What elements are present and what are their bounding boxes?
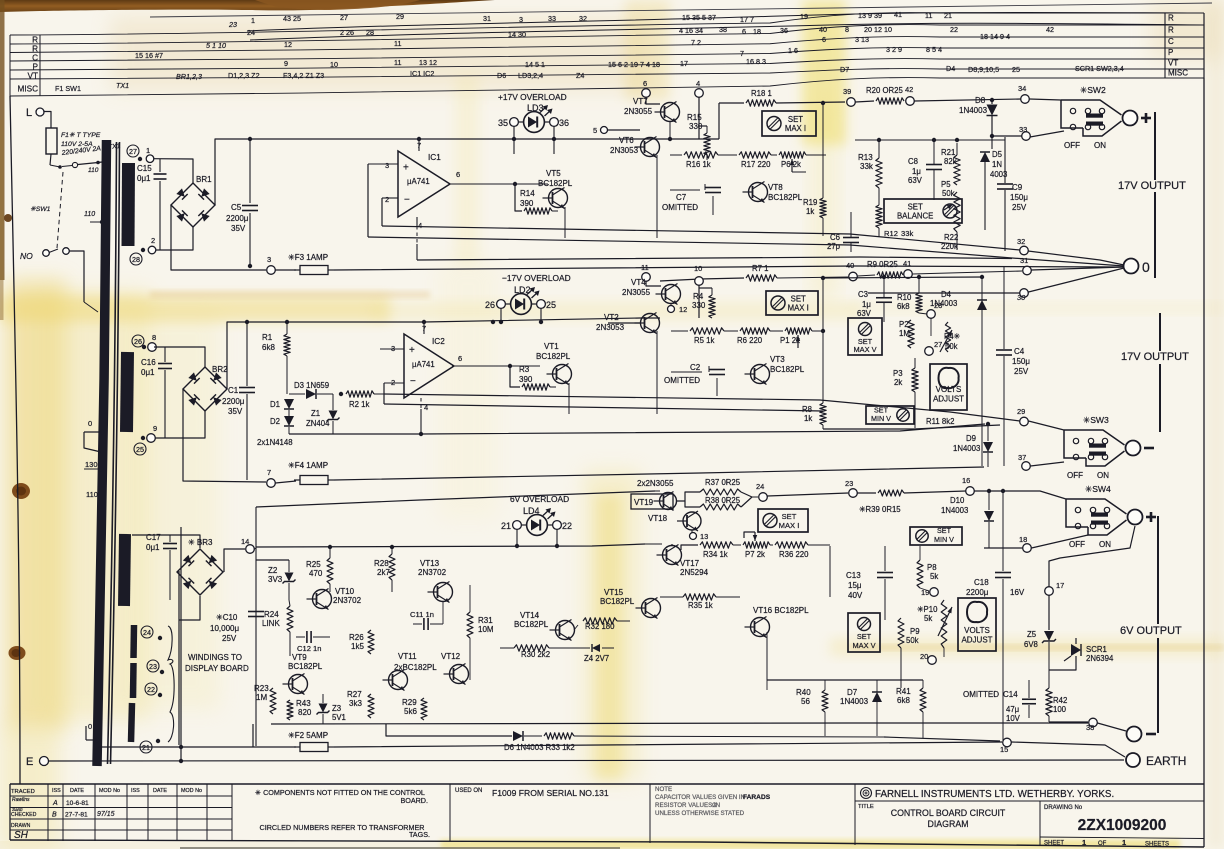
svg-text:LINK: LINK — [262, 619, 280, 628]
svg-text:VT5: VT5 — [546, 169, 561, 178]
svg-text:VT9: VT9 — [292, 653, 307, 662]
svg-text:VT18: VT18 — [648, 514, 668, 523]
svg-text:R10: R10 — [897, 293, 912, 302]
svg-text:1k: 1k — [804, 414, 812, 423]
svg-text:19: 19 — [800, 12, 808, 21]
svg-text:C11 1n: C11 1n — [410, 610, 434, 619]
svg-text:OFF: OFF — [1067, 471, 1083, 480]
svg-text:23: 23 — [149, 662, 157, 671]
svg-text:D6 1N4003 R33 1k2: D6 1N4003 R33 1k2 — [504, 743, 575, 752]
svg-text:14 5 1: 14 5 1 — [525, 60, 545, 69]
svg-text:56: 56 — [801, 697, 810, 706]
svg-text:R29: R29 — [402, 698, 417, 707]
svg-text:SET: SET — [908, 203, 923, 212]
svg-text:ON: ON — [1097, 471, 1109, 480]
svg-text:VT13: VT13 — [420, 559, 440, 568]
svg-text:R42: R42 — [1053, 696, 1067, 705]
svg-text:SCR1 SW2,3,4: SCR1 SW2,3,4 — [1075, 64, 1124, 73]
svg-text:33: 33 — [548, 14, 556, 23]
svg-text:5 1 10: 5 1 10 — [206, 41, 226, 50]
svg-text:4: 4 — [418, 221, 422, 230]
svg-text:VT17: VT17 — [680, 559, 700, 568]
svg-text:VT10: VT10 — [335, 587, 355, 596]
svg-text:VT11: VT11 — [398, 652, 417, 661]
svg-text:R38 0R25: R38 0R25 — [705, 496, 741, 505]
svg-text:−: − — [404, 194, 410, 205]
svg-text:MIN V: MIN V — [871, 414, 891, 423]
svg-text:25V: 25V — [1012, 203, 1027, 212]
svg-text:✳F3 1AMP: ✳F3 1AMP — [288, 253, 328, 262]
svg-text:24: 24 — [143, 628, 151, 637]
svg-text:27-7-81: 27-7-81 — [65, 812, 88, 819]
svg-text:R20 OR25: R20 OR25 — [866, 86, 904, 95]
svg-text:R1: R1 — [262, 333, 273, 342]
svg-text:C13: C13 — [846, 571, 861, 580]
svg-text:0: 0 — [88, 419, 92, 428]
svg-text:OMITTED: OMITTED — [664, 376, 700, 385]
svg-text:2N3053: 2N3053 — [596, 323, 625, 332]
svg-text:P: P — [1168, 48, 1173, 57]
svg-text:1N4003: 1N4003 — [930, 299, 957, 308]
svg-text:6: 6 — [822, 35, 826, 44]
svg-text:41: 41 — [894, 10, 902, 19]
svg-text:4: 4 — [696, 79, 700, 88]
svg-text:TITLE: TITLE — [858, 804, 874, 810]
svg-text:3: 3 — [267, 255, 271, 264]
svg-text:25: 25 — [1012, 65, 1020, 74]
svg-text:1N4003: 1N4003 — [941, 506, 968, 515]
svg-text:R36 220: R36 220 — [779, 550, 809, 559]
svg-text:10M: 10M — [478, 625, 494, 634]
svg-text:2: 2 — [385, 195, 389, 204]
svg-text:2N3702: 2N3702 — [418, 568, 447, 577]
svg-text:22: 22 — [950, 25, 958, 34]
svg-text:✳SW4: ✳SW4 — [1085, 484, 1111, 494]
svg-text:16V: 16V — [1010, 588, 1025, 597]
svg-text:P3: P3 — [893, 369, 903, 378]
svg-text:3V3: 3V3 — [268, 575, 283, 584]
svg-text:1μ: 1μ — [862, 300, 871, 309]
svg-text:ISS: ISS — [52, 788, 61, 794]
svg-text:C4: C4 — [1014, 347, 1025, 356]
svg-text:1M: 1M — [256, 693, 267, 702]
svg-text:R17 220: R17 220 — [741, 160, 771, 169]
svg-text:Rawlins: Rawlins — [12, 797, 30, 803]
svg-text:R5 1k: R5 1k — [694, 336, 714, 345]
svg-text:13 9 39: 13 9 39 — [858, 11, 882, 20]
svg-text:DIAGRAM: DIAGRAM — [927, 819, 968, 829]
svg-text:BC182PL: BC182PL — [770, 365, 805, 374]
svg-text:390: 390 — [520, 199, 534, 208]
svg-text:R3: R3 — [519, 365, 530, 374]
svg-text:11: 11 — [925, 11, 932, 20]
svg-text:D1: D1 — [270, 400, 280, 409]
svg-text:5k6: 5k6 — [404, 707, 417, 716]
svg-text:23: 23 — [845, 479, 853, 488]
svg-text:OFF: OFF — [1069, 540, 1085, 549]
svg-text:110: 110 — [84, 211, 95, 218]
svg-text:C18: C18 — [974, 578, 989, 587]
svg-text:R4: R4 — [693, 292, 704, 301]
svg-text:130: 130 — [85, 460, 98, 469]
svg-text:21: 21 — [501, 521, 511, 531]
svg-text:0: 0 — [1142, 259, 1150, 275]
svg-text:40: 40 — [819, 25, 827, 34]
svg-text:110: 110 — [86, 490, 98, 499]
svg-text:TRACED: TRACED — [11, 789, 35, 795]
svg-text:ZN404: ZN404 — [306, 419, 330, 428]
svg-text:25: 25 — [546, 300, 556, 310]
svg-text:μA741: μA741 — [412, 360, 435, 369]
svg-text:C12 1n: C12 1n — [297, 644, 322, 653]
svg-text:1: 1 — [1082, 838, 1086, 847]
svg-text:SET: SET — [791, 295, 806, 304]
svg-text:✳R39 0R15: ✳R39 0R15 — [859, 505, 901, 514]
svg-text:C: C — [1168, 37, 1174, 46]
svg-text:UNLESS OTHERWISE STATED: UNLESS OTHERWISE STATED — [655, 810, 745, 817]
svg-text:15 16 #7: 15 16 #7 — [135, 51, 163, 60]
svg-text:9: 9 — [284, 59, 288, 68]
svg-text:17: 17 — [680, 59, 688, 68]
svg-text:9: 9 — [153, 424, 157, 433]
svg-text:110: 110 — [88, 167, 99, 174]
svg-text:2N3055: 2N3055 — [622, 288, 651, 297]
svg-text:CHECKED: CHECKED — [11, 812, 37, 818]
svg-text:DRAWN: DRAWN — [11, 823, 31, 829]
svg-text:✳F2 5AMP: ✳F2 5AMP — [288, 731, 328, 740]
svg-text:OFF: OFF — [1064, 141, 1080, 150]
svg-text:VT12: VT12 — [441, 652, 461, 661]
svg-text:ON: ON — [1099, 540, 1111, 549]
svg-text:15: 15 — [1000, 745, 1008, 754]
svg-text:BC182PL: BC182PL — [538, 179, 573, 188]
svg-text:MOD No: MOD No — [99, 788, 120, 794]
svg-text:82k: 82k — [944, 157, 957, 166]
svg-text:470: 470 — [309, 569, 323, 578]
svg-text:41: 41 — [903, 259, 911, 268]
svg-text:15 35 5 37: 15 35 5 37 — [682, 13, 716, 22]
svg-text:VT: VT — [28, 72, 38, 81]
svg-text:1: 1 — [251, 16, 255, 25]
svg-text:40: 40 — [846, 261, 854, 270]
svg-text:Z1: Z1 — [311, 409, 320, 418]
svg-text:R22: R22 — [944, 233, 958, 242]
svg-text:16 8 3: 16 8 3 — [746, 57, 766, 66]
svg-text:4 16 34: 4 16 34 — [679, 26, 703, 35]
svg-text:F1 SW1: F1 SW1 — [55, 84, 81, 93]
svg-text:2k7: 2k7 — [377, 568, 390, 577]
svg-text:2200μ: 2200μ — [226, 214, 249, 223]
svg-text:μA741: μA741 — [407, 177, 430, 186]
svg-text:D8,9,10,5: D8,9,10,5 — [968, 65, 999, 74]
svg-text:Santi: Santi — [12, 807, 23, 812]
svg-text:IC2: IC2 — [432, 337, 445, 346]
svg-text:5k: 5k — [930, 572, 938, 581]
svg-text:1N4003: 1N4003 — [959, 106, 988, 115]
svg-text:SH: SH — [14, 830, 29, 841]
svg-text:E: E — [26, 756, 33, 768]
svg-text:23: 23 — [228, 20, 237, 29]
svg-text:25V: 25V — [222, 634, 237, 643]
svg-text:13 12: 13 12 — [419, 58, 437, 67]
svg-text:10-6-81: 10-6-81 — [66, 800, 89, 807]
svg-text:D10: D10 — [950, 496, 965, 505]
svg-text:SET: SET — [857, 632, 872, 641]
svg-text:2N3055: 2N3055 — [624, 107, 653, 116]
svg-text:5V1: 5V1 — [332, 713, 346, 722]
svg-text:R2 1k: R2 1k — [349, 400, 369, 409]
svg-text:38: 38 — [1086, 723, 1094, 732]
svg-text:R41: R41 — [896, 687, 911, 696]
svg-text:A: A — [52, 800, 58, 807]
svg-text:C17: C17 — [146, 533, 161, 542]
svg-text:R25: R25 — [306, 560, 321, 569]
svg-text:LD3: LD3 — [527, 103, 544, 113]
svg-text:29: 29 — [396, 12, 404, 21]
svg-text:C3: C3 — [858, 290, 868, 299]
svg-text:IC1 IC2: IC1 IC2 — [410, 69, 434, 78]
svg-text:C1: C1 — [228, 386, 239, 395]
svg-text:NOTE: NOTE — [655, 786, 672, 793]
svg-text:R16 1k: R16 1k — [686, 160, 711, 169]
svg-text:24: 24 — [247, 28, 255, 37]
svg-text:36: 36 — [559, 118, 569, 128]
svg-text:33: 33 — [1019, 125, 1027, 134]
svg-text:R18 1: R18 1 — [751, 89, 772, 98]
svg-text:DATE: DATE — [153, 788, 167, 794]
svg-text:R28: R28 — [374, 559, 389, 568]
svg-text:C15: C15 — [137, 164, 152, 173]
svg-text:16: 16 — [962, 476, 970, 485]
svg-text:P: P — [33, 63, 39, 72]
svg-text:P6 2k: P6 2k — [781, 160, 801, 169]
svg-text:7 2: 7 2 — [691, 38, 701, 47]
svg-text:VT3: VT3 — [770, 355, 785, 364]
svg-text:L: L — [26, 107, 32, 119]
svg-text:150μ: 150μ — [1012, 357, 1030, 366]
svg-text:11: 11 — [394, 58, 401, 67]
svg-text:32: 32 — [579, 14, 587, 23]
svg-text:63V: 63V — [857, 309, 872, 318]
svg-text:D3 1N659: D3 1N659 — [294, 381, 329, 390]
svg-text:R23: R23 — [254, 684, 269, 693]
svg-text:MAX V: MAX V — [854, 345, 877, 354]
svg-text:R40: R40 — [796, 688, 811, 697]
svg-text:28: 28 — [132, 255, 140, 264]
svg-text:6: 6 — [458, 354, 462, 363]
svg-text:33k: 33k — [860, 162, 874, 171]
svg-text:50k: 50k — [942, 189, 955, 198]
svg-text:BC182PL: BC182PL — [768, 193, 803, 202]
svg-text:RESISTOR VALUES IN: RESISTOR VALUES IN — [655, 802, 720, 809]
svg-text:3 2 9: 3 2 9 — [886, 45, 902, 54]
svg-text:BC182PL: BC182PL — [600, 597, 635, 606]
svg-text:2N6394: 2N6394 — [1086, 654, 1114, 663]
svg-text:25V: 25V — [1014, 367, 1029, 376]
svg-text:BC182PL: BC182PL — [514, 620, 549, 629]
svg-text:21: 21 — [944, 11, 952, 20]
svg-text:2k: 2k — [894, 378, 902, 387]
svg-text:7: 7 — [740, 49, 744, 58]
svg-text:33k: 33k — [901, 229, 913, 238]
svg-text:0μ1: 0μ1 — [146, 543, 160, 552]
svg-text:✳P10: ✳P10 — [917, 605, 938, 614]
svg-text:TAGS.: TAGS. — [409, 830, 430, 839]
svg-text:R35 1k: R35 1k — [688, 601, 713, 610]
svg-text:2N5294: 2N5294 — [680, 568, 709, 577]
svg-text:35: 35 — [498, 118, 508, 128]
svg-text:8: 8 — [152, 333, 156, 342]
svg-text:22: 22 — [562, 521, 572, 531]
svg-text:R37 0R25: R37 0R25 — [705, 478, 741, 487]
svg-text:330: 330 — [692, 301, 706, 310]
svg-text:1N4003: 1N4003 — [840, 697, 869, 706]
svg-text:D1,2,3 Z2: D1,2,3 Z2 — [228, 71, 260, 80]
svg-text:3: 3 — [385, 161, 389, 170]
svg-text:27: 27 — [340, 13, 348, 22]
svg-text:MAX V: MAX V — [853, 641, 876, 650]
svg-text:CIRCLED NUMBERS REFER TO TRAN: CIRCLED NUMBERS REFER TO TRANSFORMER — [260, 823, 425, 832]
svg-text:SCR1: SCR1 — [1086, 645, 1107, 654]
svg-text:R43: R43 — [296, 699, 311, 708]
svg-text:R24: R24 — [264, 610, 279, 619]
svg-text:TX1: TX1 — [116, 81, 129, 90]
svg-text:10: 10 — [330, 60, 338, 69]
svg-text:BALANCE: BALANCE — [897, 212, 933, 221]
svg-text:OMITTED: OMITTED — [963, 690, 999, 699]
svg-text:32: 32 — [1017, 237, 1025, 246]
svg-text:6: 6 — [643, 79, 647, 88]
svg-text:1N4003: 1N4003 — [953, 444, 980, 453]
svg-text:−: − — [410, 376, 416, 387]
svg-text:LD3,2,4: LD3,2,4 — [518, 71, 543, 80]
svg-text:C14: C14 — [1003, 690, 1018, 699]
svg-text:−17V OVERLOAD: −17V OVERLOAD — [502, 273, 571, 283]
svg-text:R7 1: R7 1 — [752, 264, 768, 273]
svg-text:6V OUTPUT: 6V OUTPUT — [1120, 625, 1182, 637]
svg-text:D2: D2 — [270, 417, 280, 426]
svg-text:Z4 2V7: Z4 2V7 — [584, 654, 609, 663]
svg-text:P1 2k: P1 2k — [780, 336, 800, 345]
svg-text:0μ1: 0μ1 — [137, 174, 151, 183]
svg-text:31: 31 — [483, 14, 491, 23]
svg-text:2ZX1009200: 2ZX1009200 — [1078, 817, 1167, 834]
svg-text:C5: C5 — [231, 203, 242, 212]
svg-text:VT19: VT19 — [634, 498, 654, 507]
svg-text:14 30: 14 30 — [508, 30, 526, 39]
svg-text:0: 0 — [88, 722, 92, 731]
svg-text:R21: R21 — [941, 148, 955, 157]
svg-text:1k5: 1k5 — [351, 642, 364, 651]
svg-text:SHEETS: SHEETS — [1145, 842, 1169, 848]
svg-text:2x2N3055: 2x2N3055 — [637, 479, 674, 488]
svg-text:R: R — [32, 45, 38, 54]
svg-text:✳SW3: ✳SW3 — [1083, 415, 1109, 425]
svg-text:F1009 FROM SERIAL NO.131: F1009 FROM SERIAL NO.131 — [492, 788, 609, 798]
svg-text:6: 6 — [456, 170, 460, 179]
svg-text:39: 39 — [843, 87, 851, 96]
svg-text:P5: P5 — [941, 180, 951, 189]
svg-text:25: 25 — [136, 445, 144, 454]
svg-text:BR2: BR2 — [212, 365, 228, 374]
svg-text:R31: R31 — [478, 616, 493, 625]
svg-text:C8: C8 — [908, 157, 918, 166]
svg-text:WINDINGS TO: WINDINGS TO — [188, 653, 242, 662]
svg-text:14: 14 — [241, 537, 249, 546]
svg-text:F3,4,2 Z1 Z3: F3,4,2 Z1 Z3 — [283, 71, 324, 80]
svg-text:Z3: Z3 — [332, 704, 341, 713]
svg-text:27p: 27p — [827, 242, 841, 251]
svg-text:BR1,2,3: BR1,2,3 — [176, 72, 202, 81]
svg-text:1: 1 — [1122, 838, 1126, 847]
svg-text:10V: 10V — [1006, 714, 1021, 723]
svg-text:17V OUTPUT: 17V OUTPUT — [1121, 351, 1189, 363]
svg-text:20 12 10: 20 12 10 — [864, 25, 892, 34]
svg-text:28: 28 — [366, 28, 374, 37]
svg-text:R34 1k: R34 1k — [703, 550, 728, 559]
svg-text:150μ: 150μ — [1010, 193, 1028, 202]
svg-text:✳SW1: ✳SW1 — [30, 206, 51, 213]
svg-text:820: 820 — [298, 708, 312, 717]
svg-text:+17V OVERLOAD: +17V OVERLOAD — [498, 92, 567, 102]
svg-text:VT14: VT14 — [520, 611, 540, 620]
svg-text:5: 5 — [593, 126, 597, 135]
svg-text:VT4: VT4 — [631, 278, 646, 287]
svg-text:D6: D6 — [497, 71, 506, 80]
svg-text:1 6: 1 6 — [788, 46, 798, 55]
svg-text:MAX I: MAX I — [779, 521, 800, 530]
svg-text:11: 11 — [394, 39, 401, 48]
svg-text:C16: C16 — [141, 358, 156, 367]
svg-text:MAX I: MAX I — [788, 304, 809, 313]
svg-text:10: 10 — [694, 264, 702, 273]
svg-text:SHEET: SHEET — [1044, 841, 1064, 847]
svg-text:5k: 5k — [924, 614, 932, 623]
svg-text:43 25: 43 25 — [283, 14, 301, 23]
svg-text:12: 12 — [284, 40, 292, 49]
svg-text:Z5: Z5 — [1027, 630, 1037, 639]
svg-text:17V OUTPUT: 17V OUTPUT — [1118, 180, 1186, 192]
svg-text:390: 390 — [519, 375, 533, 384]
svg-text:27: 27 — [934, 340, 942, 349]
svg-text:FARADS: FARADS — [743, 794, 771, 801]
svg-text:DISPLAY BOARD: DISPLAY BOARD — [185, 664, 249, 673]
svg-text:B: B — [52, 812, 57, 819]
svg-text:D7: D7 — [847, 688, 858, 697]
svg-text:8 5 4: 8 5 4 — [926, 45, 942, 54]
svg-text:VT15: VT15 — [604, 588, 624, 597]
svg-text:P2: P2 — [899, 320, 909, 329]
svg-text:31: 31 — [1020, 256, 1028, 265]
svg-text:1N: 1N — [992, 160, 1002, 169]
svg-text:P4✳: P4✳ — [944, 332, 961, 341]
svg-text:ON: ON — [1094, 141, 1106, 150]
svg-text:Z2: Z2 — [268, 566, 278, 575]
svg-text:6: 6 — [742, 27, 746, 36]
svg-text:24: 24 — [756, 482, 764, 491]
svg-text:CONTROL BOARD CIRCUIT: CONTROL BOARD CIRCUIT — [891, 808, 1006, 818]
svg-text:VOLTS: VOLTS — [964, 626, 990, 635]
svg-text:IC1: IC1 — [428, 153, 441, 162]
svg-text:12: 12 — [679, 305, 687, 314]
svg-text:35V: 35V — [228, 407, 243, 416]
svg-text:18: 18 — [753, 27, 761, 36]
svg-text:ADJUST: ADJUST — [933, 395, 964, 404]
svg-text:ISS: ISS — [131, 788, 140, 794]
svg-text:R9 0R25: R9 0R25 — [867, 260, 898, 269]
svg-text:✳C10: ✳C10 — [216, 613, 238, 622]
svg-text:2x1N4148: 2x1N4148 — [257, 438, 293, 447]
